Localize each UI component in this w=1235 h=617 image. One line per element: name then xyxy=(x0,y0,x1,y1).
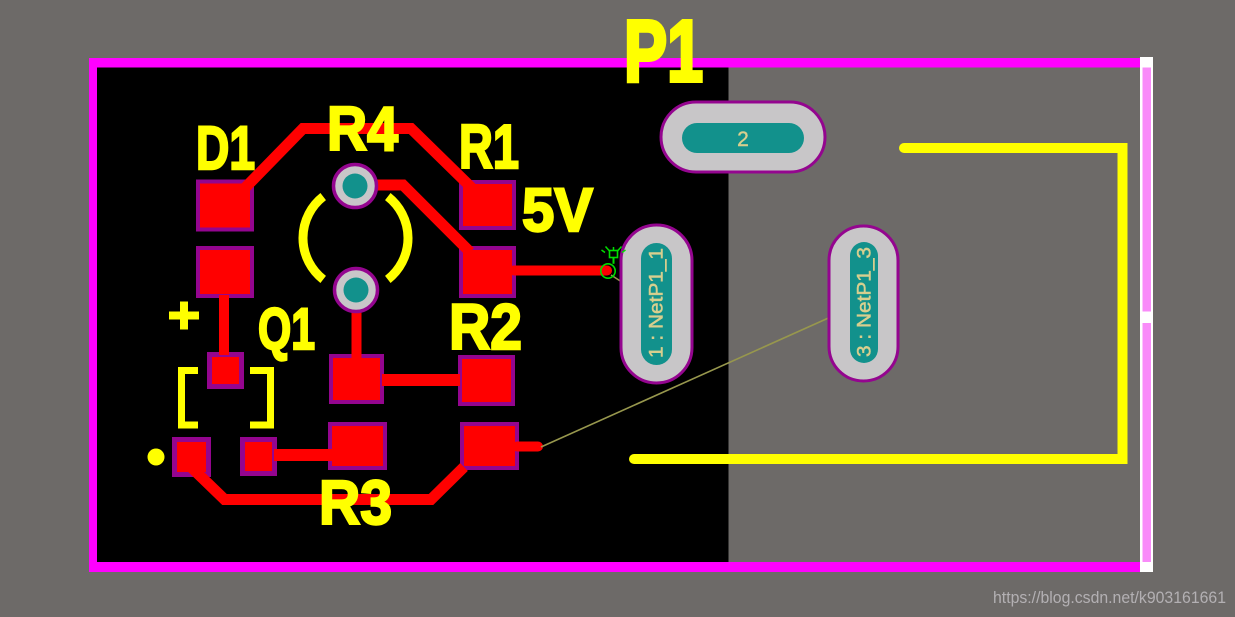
wire via1 to R1.2 xyxy=(356,185,470,252)
wire D1.2 down to small pad xyxy=(219,295,229,355)
wire R1.2 to node (green marker) xyxy=(514,266,607,276)
svg-text:R3: R3 xyxy=(319,469,392,538)
pad R2.1 xyxy=(460,357,513,404)
svg-text:https://blog.csdn.net/k9031616: https://blog.csdn.net/k903161661 xyxy=(993,588,1226,607)
wire Q1.1 to R2.1 xyxy=(382,374,460,386)
board black region xyxy=(97,68,729,563)
wire R3 (bottom-left pad to R2.2) xyxy=(192,467,464,500)
pad R1.1 xyxy=(461,182,514,228)
svg-text:P1: P1 xyxy=(624,2,703,100)
svg-text:R4: R4 xyxy=(327,95,398,164)
pad R1.2 xyxy=(461,248,514,296)
wire via2 down to Q1.1 xyxy=(352,308,362,358)
small pad bottom-left xyxy=(175,440,209,475)
wire R2.2 stub to ratsnest end xyxy=(517,442,538,452)
silkscreen dot xyxy=(148,449,165,466)
via R4 top xyxy=(334,165,377,208)
pad D1.2 xyxy=(198,248,252,296)
right edge pink segment lower xyxy=(1143,323,1152,562)
small pad bottom second xyxy=(243,440,275,474)
pad Q1.2 xyxy=(330,424,385,468)
svg-text:3 : NetP1_3: 3 : NetP1_3 xyxy=(855,247,876,357)
green marker (cursor) xyxy=(601,247,626,279)
pad P1-2 (oblong top) xyxy=(661,102,825,172)
pad Q1.1 xyxy=(331,356,382,402)
pad P1-1 NetP1_1 (oblong left) xyxy=(621,225,692,383)
svg-text:1 : NetP1_1: 1 : NetP1_1 xyxy=(647,248,668,358)
wire small pad2 to Q1.2 xyxy=(274,449,332,461)
wire D1.1 to R1.1 via R4 (red track) xyxy=(242,129,478,195)
yellow track top-layer: right loop xyxy=(634,148,1123,459)
pad P1-3 NetP1_3 (oblong right) xyxy=(829,226,898,381)
svg-text:5V: 5V xyxy=(522,176,593,244)
ratsnest line pad R2.2 to NetP1_3 xyxy=(541,316,834,448)
small pad center (D1 anode) xyxy=(210,355,242,387)
board outline bottom edge xyxy=(89,562,1142,572)
pad D1.1 xyxy=(198,182,252,230)
board outline left edge xyxy=(89,58,97,572)
silkscreen bracket ] xyxy=(250,371,271,426)
board outline top edge xyxy=(89,58,1142,68)
svg-text:R2: R2 xyxy=(449,291,522,363)
right edge pink segment upper xyxy=(1143,68,1152,312)
silkscreen plus xyxy=(169,302,199,330)
svg-text:Q1: Q1 xyxy=(258,297,315,362)
svg-text:R1: R1 xyxy=(459,113,519,182)
silkscreen arc left xyxy=(303,197,323,280)
board outline right edge selected (white handle bar) xyxy=(1140,57,1153,572)
svg-text:2: 2 xyxy=(737,128,749,151)
silkscreen arc right xyxy=(388,197,408,280)
via R4 bottom xyxy=(335,269,378,312)
silkscreen bracket [ xyxy=(182,371,199,426)
ratsnest stub at green marker xyxy=(611,275,628,286)
pad R2.2 xyxy=(462,424,517,468)
svg-text:D1: D1 xyxy=(196,114,255,182)
